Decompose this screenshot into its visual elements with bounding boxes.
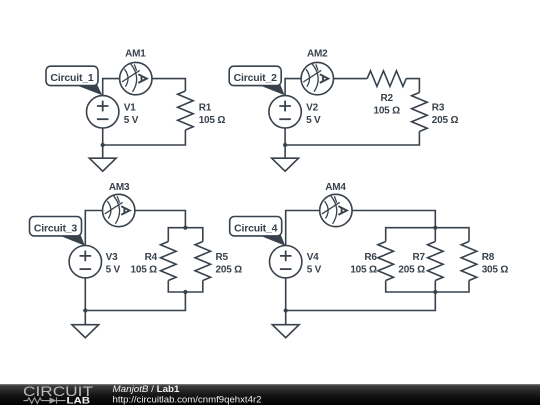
wire parallel bottom to node c4 [286,292,436,311]
resistor R1 body [178,91,194,130]
svg-text:Circuit_3: Circuit_3 [34,223,77,235]
svg-text:AM4: AM4 [325,182,346,193]
svg-text:5 V: 5 V [307,264,322,275]
ammeter AM2 [301,62,333,94]
ammeter AM1 [120,62,152,94]
wire parallel bottom bar c3 [168,281,203,293]
wire AM2 right to R2 left [334,78,368,80]
svg-text:Circuit_4: Circuit_4 [234,223,277,235]
wire V3 top to AM3 left [85,211,102,246]
wire V3 bottom lead [84,278,86,311]
svg-text:305 Ω: 305 Ω [482,264,509,275]
resistor R4 body [161,242,177,281]
svg-text:5 V: 5 V [106,264,121,275]
svg-text:R7: R7 [413,252,426,263]
svg-text:R6: R6 [364,252,377,263]
junction node c4 parallel bottom junction [433,290,437,294]
wire R7 top lead [434,228,436,242]
svg-text:R5: R5 [216,252,229,263]
wire V1 top to AM1 left [103,79,120,96]
wire V2 top to AM2 left [285,79,301,96]
svg-text:R8: R8 [482,252,495,263]
svg-text:LAB: LAB [67,395,91,405]
resistor R7 body [428,242,444,281]
wire V1 bottom lead [102,128,104,145]
svg-text:V3: V3 [106,252,118,263]
svg-text:R4: R4 [145,252,158,263]
junction node circuit4 bottom junction [284,308,288,312]
wire R1 bottom to node [103,130,186,145]
logo schematic squiggle: diode [50,397,57,403]
svg-text:Circuit_1: Circuit_1 [50,72,93,84]
svg-text:ManjotB / Lab1: ManjotB / Lab1 [113,384,180,394]
wire parallel top bar c4 [386,228,469,242]
svg-text:105 Ω: 105 Ω [199,115,226,126]
voltage source V4 [270,246,302,278]
svg-text:105 Ω: 105 Ω [131,264,158,275]
wire V4 top to AM4 left [286,211,320,246]
wire parallel top bar c3 [168,228,203,242]
wire parallel bottom to node c3 [85,292,185,311]
svg-text:V2: V2 [306,102,318,113]
svg-text:R1: R1 [199,102,212,113]
wire AM1 right to R1 top [152,79,185,91]
junction node c3 parallel top junction [183,226,187,230]
junction node circuit2 bottom junction [283,143,287,147]
voltage source V3 [69,246,101,278]
wire V4 bottom lead [285,278,287,311]
svg-text:205 Ω: 205 Ω [398,264,425,275]
ground GND circuit 1 [89,145,116,171]
net label Circuit_1 callout [46,66,102,95]
voltage source V1 [87,96,119,128]
svg-text:V4: V4 [307,252,319,263]
net label Circuit_2 callout [229,66,285,95]
wire R7 bottom lead [434,281,436,293]
svg-text:Circuit_2: Circuit_2 [234,72,277,84]
ground GND circuit 3 [72,311,99,338]
ground GND circuit 2 [272,145,299,171]
junction node circuit1 bottom junction [101,143,105,147]
logo schematic squiggle: resistor [24,398,50,404]
junction node c3 parallel bottom junction [183,290,187,294]
wire R2 right to R3 top [406,79,419,93]
resistor R5 body [195,242,211,281]
ammeter AM4 [320,194,352,226]
junction node c4 parallel top junction [433,226,437,230]
svg-text:5 V: 5 V [306,115,321,126]
wire AM4 right to parallel top [352,211,435,228]
voltage source V2 [269,96,301,128]
wire AM3 right to parallel top [135,211,186,228]
svg-text:R3: R3 [432,102,445,113]
svg-text:AM3: AM3 [109,182,130,193]
resistor R8 body [461,242,477,281]
resistor R3 body [412,93,428,132]
wire parallel bottom bar c4 [386,281,469,293]
svg-text:AM2: AM2 [307,49,328,60]
wire R3 bottom to node [285,132,419,146]
svg-text:AM1: AM1 [125,49,146,60]
svg-text:205 Ω: 205 Ω [216,264,243,275]
net label Circuit_3 callout [30,217,85,246]
footer bar [0,384,540,405]
svg-text:105 Ω: 105 Ω [373,105,400,116]
ground GND circuit 4 [272,311,299,338]
net label Circuit_4 callout [230,217,286,246]
junction node circuit3 bottom junction [83,308,87,312]
resistor R2 body [367,71,406,87]
wire V2 bottom lead [284,128,286,145]
ammeter AM3 [103,194,135,226]
svg-text:105 Ω: 105 Ω [350,264,377,275]
resistor R6 body [378,242,394,281]
svg-text:http://circuitlab.com/cnmf9qeh: http://circuitlab.com/cnmf9qehxt4r2 [113,394,262,404]
svg-text:V1: V1 [124,102,136,113]
svg-text:5 V: 5 V [124,115,139,126]
svg-text:R2: R2 [381,93,394,104]
svg-text:205 Ω: 205 Ω [432,115,459,126]
